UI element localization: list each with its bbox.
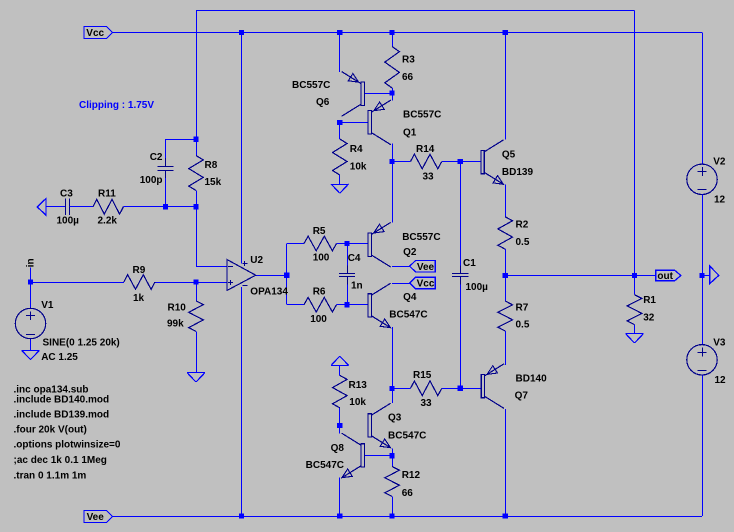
wire Q3 collector stub bbox=[392, 388, 394, 403]
wire Q4 emitter drop bbox=[392, 327, 394, 389]
svg-text:Q4: Q4 bbox=[403, 292, 417, 303]
wire Q2 base bbox=[347, 243, 368, 245]
svg-text:Vee: Vee bbox=[417, 262, 435, 273]
svg-text:0.5: 0.5 bbox=[516, 320, 530, 331]
svg-text:66: 66 bbox=[402, 72, 414, 83]
wire Q6 base bbox=[364, 93, 392, 95]
svg-text:12: 12 bbox=[714, 195, 726, 206]
ground under R4 bbox=[331, 184, 349, 193]
svg-text:100: 100 bbox=[313, 252, 330, 263]
transistor Q2 bbox=[368, 222, 441, 267]
wire R5 to node A bbox=[337, 243, 348, 245]
svg-text:V1: V1 bbox=[41, 300, 54, 311]
comment Clipping bbox=[79, 100, 154, 111]
svg-text:BC557C: BC557C bbox=[403, 110, 441, 121]
svg-text:.options plotwinsize=0: .options plotwinsize=0 bbox=[14, 440, 121, 451]
svg-text:Vcc: Vcc bbox=[417, 279, 435, 290]
svg-text:1n: 1n bbox=[351, 281, 363, 292]
wire op-amp V+ supply bbox=[241, 33, 243, 264]
svg-text:R5: R5 bbox=[313, 226, 326, 237]
resistor R11 bbox=[70, 189, 166, 227]
svg-text:V2: V2 bbox=[713, 157, 726, 168]
net flag Vee mid bbox=[410, 261, 436, 273]
wire Q5 base bbox=[460, 161, 481, 163]
svg-text:C1: C1 bbox=[463, 258, 476, 269]
svg-text:Clipping : 1.75V: Clipping : 1.75V bbox=[79, 100, 154, 111]
svg-text:BD139: BD139 bbox=[502, 167, 534, 178]
wire Q5 emitter to R2 bbox=[505, 185, 507, 217]
wire Q4 collector to Vcc flag bbox=[392, 283, 410, 285]
svg-text:66: 66 bbox=[402, 488, 414, 499]
svg-text:.include BD140.mod: .include BD140.mod bbox=[14, 395, 110, 406]
svg-text:BC557C: BC557C bbox=[402, 232, 440, 243]
wire R2 to out node bbox=[505, 249, 507, 275]
svg-text:Vcc: Vcc bbox=[86, 28, 104, 39]
wire R6 to node B bbox=[337, 304, 348, 306]
svg-text:2.2k: 2.2k bbox=[98, 216, 118, 227]
wire feedback right drop bbox=[634, 11, 636, 276]
resistor R6 bbox=[304, 286, 347, 325]
svg-text:10k: 10k bbox=[350, 162, 367, 173]
port flag input bbox=[37, 199, 46, 216]
capacitor C1 bbox=[452, 162, 488, 389]
svg-text:100µ: 100µ bbox=[57, 216, 80, 227]
svg-text:Q5: Q5 bbox=[502, 150, 516, 161]
resistor R7 bbox=[498, 276, 530, 365]
resistor R15 bbox=[392, 370, 460, 409]
wire Q5 collector to Vcc bbox=[505, 33, 507, 140]
transistor Q4 bbox=[368, 283, 428, 328]
wire R7 to Q7 emitter bbox=[505, 331, 507, 365]
svg-text:BC557C: BC557C bbox=[292, 80, 330, 91]
transistor Q6 bbox=[292, 72, 364, 117]
svg-text:1k: 1k bbox=[133, 293, 145, 304]
wire feedback top rail bbox=[196, 10, 635, 12]
svg-text:out: out bbox=[657, 271, 673, 282]
net label in bbox=[26, 258, 37, 267]
svg-text:32: 32 bbox=[643, 313, 655, 324]
svg-text:C3: C3 bbox=[60, 189, 73, 200]
wire R7 top bbox=[505, 276, 507, 302]
svg-text:Q8: Q8 bbox=[331, 443, 345, 454]
svg-text:BC547C: BC547C bbox=[306, 460, 344, 471]
ground under R10 bbox=[187, 373, 205, 383]
svg-text:U2: U2 bbox=[250, 255, 263, 266]
svg-text:BC547C: BC547C bbox=[388, 431, 426, 442]
resistor R5 bbox=[304, 226, 347, 263]
resistor R12 bbox=[385, 456, 421, 516]
wire Vcc rail right drop to V2 bbox=[702, 33, 704, 165]
svg-text:99k: 99k bbox=[167, 319, 184, 330]
svg-text:.tran 0 1.1m 1m: .tran 0 1.1m 1m bbox=[14, 471, 87, 482]
resistor R14 bbox=[411, 144, 442, 182]
capacitor C4 bbox=[339, 244, 363, 305]
resistor R9 bbox=[31, 265, 197, 304]
svg-text:BC547C: BC547C bbox=[389, 309, 427, 320]
svg-text:Q7: Q7 bbox=[515, 390, 529, 401]
svg-text:Q2: Q2 bbox=[403, 247, 417, 258]
svg-text:R3: R3 bbox=[402, 54, 415, 65]
wire op-amp output bbox=[256, 275, 287, 277]
wire V1 top lead bbox=[30, 282, 32, 308]
wire op-amp V- supply bbox=[241, 287, 243, 516]
svg-text:R4: R4 bbox=[350, 144, 363, 155]
svg-text:100p: 100p bbox=[140, 175, 163, 186]
svg-text:SINE(0 1.25 20k): SINE(0 1.25 20k) bbox=[43, 338, 120, 349]
ground under R1 bbox=[626, 334, 644, 344]
svg-text:15k: 15k bbox=[205, 177, 222, 188]
svg-text:R14: R14 bbox=[416, 144, 435, 155]
resistor R4 bbox=[333, 123, 367, 185]
wire Q6 emitter to Vcc bbox=[339, 33, 341, 72]
wire C2 top bbox=[166, 139, 197, 158]
wire V1 to ground bbox=[30, 339, 32, 351]
svg-text:C2: C2 bbox=[150, 152, 163, 163]
wire Q8 collector stub bbox=[339, 426, 341, 434]
svg-text:C4: C4 bbox=[348, 253, 361, 264]
wire Vee rail bbox=[113, 516, 703, 518]
wire Q3 emitter stub bbox=[392, 449, 394, 456]
wire Q7 collector to Vee bbox=[505, 409, 507, 516]
transistor Q8 bbox=[306, 433, 365, 478]
wire Q2 emitter riser bbox=[392, 162, 394, 223]
wire output to R6 bbox=[287, 275, 305, 304]
svg-text:R15: R15 bbox=[413, 370, 432, 381]
transistor Q5 bbox=[481, 140, 534, 185]
port flag supply midpoint bbox=[710, 266, 719, 284]
transistor Q3 bbox=[368, 403, 426, 448]
svg-text:R8: R8 bbox=[205, 160, 218, 171]
wire R14 node to Q5 bbox=[392, 161, 460, 163]
svg-text:R1: R1 bbox=[643, 295, 656, 306]
wire inverting input bbox=[196, 207, 227, 267]
voltage source V2 bbox=[687, 157, 726, 206]
resistor R1 bbox=[627, 276, 656, 334]
wire Vcc rail bbox=[113, 32, 703, 34]
svg-text:;ac dec 1k 0.1 1Meg: ;ac dec 1k 0.1 1Meg bbox=[14, 455, 107, 466]
svg-text:0.5: 0.5 bbox=[516, 237, 530, 248]
wire input node riser bbox=[30, 268, 32, 283]
ground under V1 bbox=[22, 350, 40, 359]
resistor R8 bbox=[189, 139, 222, 207]
wire Q8 emitter drop bbox=[339, 477, 341, 516]
voltage source V1 bbox=[15, 300, 119, 363]
svg-text:in: in bbox=[26, 258, 37, 267]
wire Q8 base bbox=[364, 455, 392, 457]
wire feedback left drop bbox=[196, 11, 198, 140]
wire Q1 base bbox=[340, 122, 369, 124]
directive block bbox=[14, 395, 121, 482]
svg-text:Q3: Q3 bbox=[388, 413, 402, 424]
svg-text:Q6: Q6 bbox=[316, 97, 330, 108]
wire V2 to V3 bbox=[702, 195, 704, 345]
svg-text:Q1: Q1 bbox=[403, 128, 417, 139]
resistor R10 bbox=[167, 282, 203, 373]
wire out node bbox=[505, 275, 634, 277]
svg-text:V3: V3 bbox=[713, 338, 726, 349]
resistor R13 bbox=[333, 365, 368, 425]
svg-text:R7: R7 bbox=[516, 303, 529, 314]
svg-text:12: 12 bbox=[715, 375, 727, 386]
wire R11 to C2 bottom node bbox=[123, 206, 196, 208]
svg-text:33: 33 bbox=[421, 398, 433, 409]
svg-text:R12: R12 bbox=[402, 470, 421, 481]
capacitor C2 bbox=[140, 152, 174, 207]
wire R9 left bbox=[31, 282, 124, 284]
svg-text:100: 100 bbox=[310, 314, 327, 325]
svg-text:.four 20k V(out): .four 20k V(out) bbox=[14, 424, 87, 435]
svg-text:R9: R9 bbox=[133, 265, 146, 276]
wire R9 right to noninverting input bbox=[155, 282, 227, 284]
wire supply midpoint stub bbox=[702, 275, 710, 277]
svg-text:10k: 10k bbox=[349, 397, 366, 408]
svg-text:OPA134: OPA134 bbox=[250, 287, 288, 298]
voltage source V3 bbox=[687, 338, 726, 387]
transistor Q1 bbox=[368, 100, 441, 145]
wire Q4 base bbox=[347, 304, 368, 306]
svg-text:33: 33 bbox=[423, 172, 435, 183]
svg-text:BD140: BD140 bbox=[516, 374, 548, 385]
wire Q7 base bbox=[460, 388, 481, 390]
net flag Vcc mid bbox=[410, 277, 436, 289]
svg-text:R11: R11 bbox=[98, 189, 116, 200]
svg-text:R6: R6 bbox=[313, 286, 326, 297]
svg-text:100µ: 100µ bbox=[466, 282, 489, 293]
resistor R2 bbox=[498, 185, 530, 276]
wire Q1 collector stub bbox=[392, 144, 394, 162]
directive .inc opa134.sub bbox=[14, 384, 89, 395]
svg-text:Vee: Vee bbox=[87, 512, 105, 523]
transistor Q7 bbox=[481, 364, 547, 409]
net flag Vcc top bbox=[84, 27, 113, 40]
resistor R3 bbox=[385, 33, 415, 94]
wire Vee rail right rise from V3 bbox=[702, 375, 704, 516]
svg-text:R10: R10 bbox=[168, 302, 187, 313]
net flag Vee bottom bbox=[84, 511, 113, 524]
svg-text:R13: R13 bbox=[349, 380, 368, 391]
net flag out bbox=[656, 270, 681, 282]
wire output to R5 bbox=[287, 244, 305, 276]
wire Q2 collector to Vee flag bbox=[392, 266, 410, 268]
wire out node to flag bbox=[635, 275, 656, 277]
flipped ground above R13 bbox=[331, 356, 349, 365]
svg-text:AC 1.25: AC 1.25 bbox=[41, 352, 78, 363]
svg-text:R2: R2 bbox=[516, 220, 529, 231]
svg-text:.include BD139.mod: .include BD139.mod bbox=[14, 410, 110, 421]
op-amp U2 bbox=[227, 255, 288, 298]
capacitor C3 bbox=[46, 189, 93, 227]
wire Q1 emitter stub bbox=[392, 93, 394, 100]
